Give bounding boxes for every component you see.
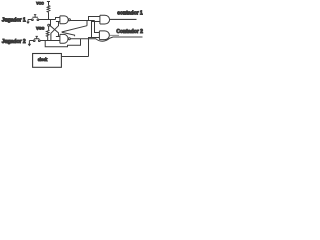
svg-text:VCC: VCC bbox=[36, 1, 44, 5]
NAND gate U1A bbox=[60, 16, 68, 24]
feedback loop lower-left bbox=[45, 39, 80, 47]
clock riser bbox=[89, 38, 100, 57]
NAND gate U1B bbox=[60, 34, 68, 43]
wire U2A output to contador 1 bbox=[110, 18, 137, 20]
wire vss to R2 bbox=[48, 26, 50, 30]
wire to Contador 2 bbox=[113, 36, 143, 38]
resistor R1 bbox=[47, 6, 50, 13]
svg-text:vss: vss bbox=[36, 25, 45, 30]
branch up to U2A input bbox=[89, 17, 100, 21]
svg-text:Contador 2: Contador 2 bbox=[116, 29, 143, 35]
clock box bbox=[33, 54, 62, 68]
svg-text:contador 1: contador 1 bbox=[117, 10, 143, 16]
VCC power symbol bbox=[47, 2, 50, 6]
svg-text:clock: clock bbox=[38, 57, 48, 62]
ground arrow J2 bbox=[28, 41, 30, 45]
U1B top input stub bbox=[56, 36, 60, 38]
wire R1 to node J1 bbox=[48, 13, 50, 20]
vss port circle bbox=[48, 24, 50, 26]
feedback V riser to Q trunk bbox=[86, 21, 88, 26]
pushbutton J2 bbox=[33, 40, 35, 42]
AND gate U2B bbox=[99, 31, 109, 40]
cross wire A: J1 node to U1B top input bbox=[51, 20, 59, 37]
svg-text:Jugador 1: Jugador 1 bbox=[2, 18, 26, 24]
riser to U1A top input bbox=[56, 18, 60, 20]
wire U1A output trunk bbox=[70, 20, 94, 22]
bubble U1B bbox=[68, 38, 70, 40]
wire arrow to switch J1 bbox=[28, 19, 32, 21]
feedback V wire upper arm bbox=[62, 26, 87, 32]
wire U1B output bbox=[70, 38, 96, 40]
junction node J2 bbox=[47, 40, 48, 41]
branch down to U2B input bbox=[95, 21, 100, 33]
ground arrow J1 bbox=[27, 20, 29, 23]
wire R2 to node J2 bbox=[47, 37, 49, 41]
resistor R2 bbox=[46, 30, 49, 37]
bubble U1A bbox=[68, 19, 70, 21]
AND gate U2A bbox=[100, 15, 110, 24]
junction node J1 bbox=[48, 19, 49, 20]
dip wire to counter 2 line bbox=[96, 37, 113, 41]
pushbutton J1 bbox=[32, 19, 34, 21]
wire clock output bbox=[61, 56, 88, 58]
wire U2B output stub bbox=[109, 34, 119, 36]
cross wire B: U1A bottom input to J2 node bbox=[51, 22, 59, 41]
clock riser upper to U2A bbox=[92, 22, 100, 38]
feedback V wire lower arm bbox=[62, 32, 75, 36]
U1A bottom input stub bbox=[56, 21, 60, 23]
wire J2 node bbox=[40, 40, 60, 42]
svg-text:Jugador 2: Jugador 2 bbox=[2, 39, 26, 45]
wire J1 node bbox=[39, 19, 56, 21]
wire arrow to switch J2 bbox=[29, 40, 33, 42]
